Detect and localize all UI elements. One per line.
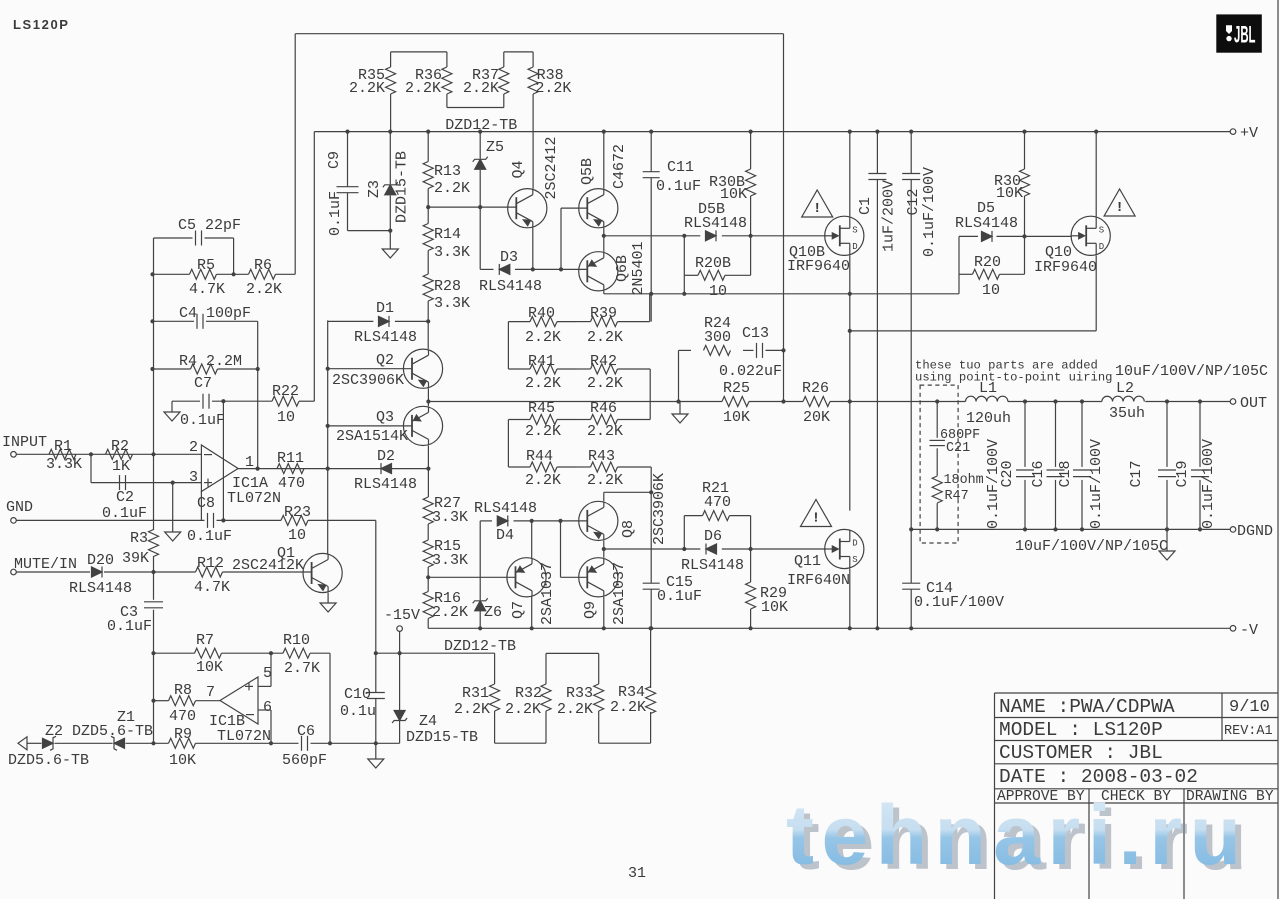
svg-text:R4 2.2M: R4 2.2M: [179, 353, 242, 370]
svg-text:Q4: Q4: [510, 160, 527, 178]
wire Q1 collector from rail: [327, 469, 329, 554]
label 10uF/100V/NP/105C bottom: [1015, 538, 1168, 555]
transistor Q5B: [579, 144, 628, 228]
mosfet Q10B: [787, 216, 864, 275]
svg-text:2SA1037: 2SA1037: [611, 562, 628, 625]
svg-text:3.3K: 3.3K: [432, 509, 468, 526]
junction Q7 base node: [426, 575, 430, 579]
watermark tehnari.ru: [786, 788, 1254, 887]
junction riser at D3 wire: [559, 267, 563, 271]
wire -V rail: [428, 627, 1230, 629]
wire C1 column: [876, 132, 878, 629]
wire R8 from output: [154, 700, 221, 702]
mosfet Q11: [787, 529, 864, 589]
junction feedback at R5 wire: [150, 272, 154, 276]
resistor R3: [122, 530, 159, 568]
junction R7-R10-pin5 node: [269, 651, 273, 655]
svg-text:2.2K: 2.2K: [557, 701, 593, 718]
svg-text:4.7K: 4.7K: [189, 281, 225, 298]
wire C4/R4 down to output: [257, 321, 259, 468]
svg-text:L2: L2: [1116, 380, 1134, 397]
wire IC1A pin4 stub: [200, 492, 202, 521]
transistor Q8: [579, 473, 668, 545]
junction C10 top: [374, 651, 378, 655]
junction R47 at DGND: [935, 527, 939, 531]
svg-text:2.2K: 2.2K: [405, 80, 441, 97]
svg-text:R2: R2: [111, 438, 129, 455]
resistor R8: [169, 682, 197, 725]
wire C7 left stub to ground: [171, 401, 173, 412]
junction pin6 at R9 wire: [269, 741, 273, 745]
svg-text:R10: R10: [283, 632, 310, 649]
junction rail at R9 wire: [151, 741, 155, 745]
node -15V terminal: [384, 607, 420, 631]
wire R15 to R16: [427, 567, 429, 592]
junction feedback at C4 wire: [150, 319, 154, 323]
wire D1 row: [328, 320, 429, 321]
svg-text:R9: R9: [174, 726, 192, 743]
svg-text:2.2K: 2.2K: [349, 80, 385, 97]
wire R24 left bracket: [678, 350, 680, 401]
svg-text:C4 100pF: C4 100pF: [179, 305, 251, 322]
wire R20 right bracket: [1024, 236, 1026, 274]
resistor R22: [272, 383, 299, 426]
svg-text:C5 22pF: C5 22pF: [178, 217, 241, 234]
junction R30B at gate row: [749, 234, 753, 238]
junction R21 left at gate row: [682, 547, 686, 551]
resistor R20B: [684, 255, 750, 300]
title block signature row: [997, 789, 1274, 805]
wire input to op-amp pin2: [16, 453, 201, 455]
svg-text:JBL: JBL: [1234, 22, 1256, 49]
junction D2 wire into Q3 column: [426, 467, 430, 471]
wire R21 right bracket / R29: [750, 516, 752, 582]
capacitor C5: [178, 217, 241, 246]
capacitor C17: [1128, 399, 1176, 531]
wire Q11 source: [849, 568, 851, 628]
svg-text:R42: R42: [590, 353, 617, 370]
capacitor C18: [1057, 399, 1105, 531]
svg-text:R14: R14: [434, 226, 461, 243]
wire R27 to R15: [427, 524, 429, 540]
junction Z5 at bus: [478, 130, 482, 134]
JBL logo: [1216, 14, 1262, 52]
capacitor C8: [187, 495, 232, 545]
resistor R7: [195, 632, 224, 676]
svg-text:MUTE/IN: MUTE/IN: [14, 556, 77, 573]
svg-text:Z2 DZD5.6-TB: Z2 DZD5.6-TB: [45, 723, 153, 740]
resistor R30B: [709, 132, 756, 236]
svg-text:2.2K: 2.2K: [587, 329, 623, 346]
svg-text:DATE : 2008-03-02: DATE : 2008-03-02: [999, 766, 1198, 788]
svg-text:Z4: Z4: [419, 713, 437, 730]
junction C12 at DGND: [909, 527, 913, 531]
wire C14 column: [910, 529, 912, 628]
svg-text:2.2K: 2.2K: [454, 701, 490, 718]
svg-text:C13: C13: [742, 325, 769, 342]
svg-text:NAME :PWA/CDPWA: NAME :PWA/CDPWA: [999, 696, 1175, 718]
svg-text:R45: R45: [528, 400, 555, 417]
wire R20B left bracket: [683, 236, 685, 294]
wire R45-R44 left bracket: [507, 420, 509, 468]
junction feedback at R4 wire: [150, 367, 154, 371]
svg-text:Q7: Q7: [510, 601, 527, 619]
junction R29 top at gate row: [749, 547, 753, 551]
svg-text:10K: 10K: [169, 752, 196, 769]
svg-text:31: 31: [628, 865, 646, 882]
wire C10 column: [375, 653, 377, 743]
svg-text:R47: R47: [945, 489, 969, 504]
wire R36-R37 bottom bracket: [447, 107, 504, 109]
resistor R35: [349, 52, 396, 132]
junction feedback at OUT: [781, 399, 785, 403]
svg-text:C18: C18: [1057, 460, 1074, 487]
diode D20: [69, 552, 132, 597]
svg-text:470: 470: [704, 494, 731, 511]
svg-text:R20: R20: [974, 254, 1001, 271]
junction Z5 at Q4 base wire: [478, 205, 482, 209]
svg-text:560pF: 560pF: [282, 752, 327, 769]
wire Q3 base: [328, 425, 412, 427]
svg-text:2.2K: 2.2K: [525, 472, 561, 489]
svg-text:D: D: [852, 539, 857, 549]
capacitor C6: [282, 723, 327, 769]
svg-text:2.2K: 2.2K: [587, 375, 623, 392]
wire Q5B base riser: [561, 208, 587, 269]
svg-text:2.2K: 2.2K: [525, 375, 561, 392]
wire Q2 emitter to out node: [427, 388, 429, 401]
wire Q7 emitter: [531, 596, 533, 628]
wire R40-R41 left bracket: [507, 322, 509, 369]
junction Q9 base riser at D4 wire: [558, 519, 562, 523]
transistor Q3: [336, 406, 443, 445]
wire Q5B collector: [603, 132, 605, 189]
resistor R4: [179, 353, 242, 374]
resistor R30: [994, 132, 1030, 237]
junction Q8-Q9 node at gate wire: [602, 547, 606, 551]
node OUT terminal: [1230, 395, 1267, 412]
resistor R46: [577, 400, 650, 440]
svg-text:20K: 20K: [803, 409, 830, 426]
wire IC1B pin5: [258, 653, 271, 686]
wire C21 R47 column: [936, 402, 938, 530]
capacitor C19: [1174, 399, 1217, 531]
transistor Q1: [232, 545, 342, 593]
svg-text:Q11: Q11: [794, 553, 821, 570]
resistor R23: [281, 504, 311, 544]
junction R13 at bus: [426, 130, 430, 134]
wire base rail x327: [327, 321, 329, 468]
svg-text:0.022uF: 0.022uF: [719, 363, 782, 380]
svg-text:R11: R11: [277, 450, 304, 467]
op-amp IC1B: [206, 665, 272, 745]
svg-text:2SA1037: 2SA1037: [539, 562, 556, 625]
svg-text:C19: C19: [1174, 460, 1191, 487]
svg-text:10K: 10K: [196, 659, 223, 676]
svg-text:0.1uF: 0.1uF: [187, 528, 232, 545]
svg-text:C6: C6: [297, 723, 315, 740]
wire C7 R22: [172, 400, 314, 402]
resistor R43: [577, 448, 651, 489]
svg-text:RLS4148: RLS4148: [354, 476, 417, 493]
wire IC1A output: [238, 468, 428, 470]
capacitor C10: [340, 686, 385, 720]
junction Z6 at -V: [478, 626, 482, 630]
wire Q5B emitter / Q6B collector: [603, 228, 605, 252]
junction Q9 emitter at -V: [602, 626, 606, 630]
zener Z5: [473, 139, 504, 169]
wire R38 down to Q4 collector: [532, 94, 534, 189]
svg-text:0.1uF: 0.1uF: [180, 412, 225, 429]
junction pin3 ground node: [171, 481, 175, 485]
transistor Q6B: [579, 241, 647, 295]
resistor R36: [405, 52, 452, 108]
title block NAME row: [999, 696, 1270, 718]
resistor R14: [423, 207, 470, 274]
svg-text:R25: R25: [723, 380, 750, 397]
junction output feedback: [256, 467, 260, 471]
svg-text:10uF/100V/NP/105C: 10uF/100V/NP/105C: [1015, 538, 1168, 555]
svg-text:S: S: [852, 555, 857, 565]
resistor R21: [684, 480, 750, 521]
resistor R44: [508, 448, 577, 489]
junction gate-drive node: [602, 234, 606, 238]
wire Q10B source: [849, 132, 851, 217]
resistor R42: [577, 353, 650, 392]
wire Q7 base row: [428, 576, 515, 578]
junction C14 at -V: [909, 626, 913, 630]
wire gate drive row upper: [604, 235, 826, 237]
wire DGND rail: [911, 528, 1230, 530]
zener Z6: [473, 521, 502, 628]
junction Z3 bottom: [388, 229, 392, 233]
svg-text:D2: D2: [377, 448, 395, 465]
wire Z5 column: [479, 132, 481, 270]
svg-text:IRF9640: IRF9640: [1034, 259, 1097, 276]
wire Q4 base: [428, 206, 516, 208]
svg-text:Q8: Q8: [620, 520, 637, 538]
resistor R37: [463, 52, 509, 108]
svg-text:C11: C11: [667, 159, 694, 176]
svg-text:3.3K: 3.3K: [434, 295, 470, 312]
svg-text:18ohm: 18ohm: [944, 473, 984, 488]
svg-text:INPUT: INPUT: [2, 434, 47, 451]
svg-text:2.2K: 2.2K: [434, 180, 470, 197]
resistor R13: [423, 132, 470, 208]
resistor R29: [746, 582, 788, 628]
svg-text:0.1uF: 0.1uF: [102, 505, 147, 522]
svg-text:7: 7: [206, 684, 215, 701]
resistor R24: [704, 315, 732, 355]
zener Z3: [366, 151, 411, 223]
svg-text:10: 10: [982, 282, 1000, 299]
svg-text:0.1uF: 0.1uF: [327, 191, 344, 236]
svg-text:R12: R12: [197, 555, 224, 572]
svg-text:Q5B: Q5B: [579, 158, 596, 185]
svg-text:3.3K: 3.3K: [434, 244, 470, 261]
svg-text:2.2K: 2.2K: [535, 80, 571, 97]
svg-text:C17: C17: [1128, 460, 1145, 487]
svg-text:Q6B: Q6B: [614, 255, 631, 282]
capacitor C16: [1030, 399, 1065, 531]
junction C1 at -V: [875, 626, 879, 630]
wire Q9 base riser: [561, 521, 588, 577]
svg-text:2.2K: 2.2K: [505, 701, 541, 718]
svg-text:C8: C8: [197, 495, 215, 512]
svg-text:tehnari.ru: tehnari.ru: [786, 788, 1248, 882]
wire Z3 ground stub: [389, 231, 391, 249]
junction mute at rail: [151, 570, 155, 574]
svg-text:C4672: C4672: [611, 144, 628, 189]
svg-text:!: !: [1115, 200, 1123, 216]
diode D2: [354, 448, 417, 493]
wire -15V row: [376, 652, 495, 654]
svg-text:OUT: OUT: [1240, 395, 1267, 412]
wire R21 left bracket: [683, 516, 685, 549]
resistor R9: [169, 726, 197, 769]
wire gate return row: [604, 236, 1072, 293]
resistor R28: [423, 274, 470, 321]
svg-text:Z6: Z6: [484, 604, 502, 621]
wire R23 to -15V node: [375, 520, 377, 653]
wire Q9 emitter: [603, 597, 605, 628]
svg-text:10: 10: [709, 283, 727, 300]
capacitor C14: [902, 580, 1004, 611]
svg-text:C12: C12: [905, 188, 922, 215]
junction Q10B source at bus: [848, 130, 852, 134]
diode D5: [955, 200, 1018, 242]
wire R22 up to +V bus: [313, 132, 315, 402]
svg-text:R46: R46: [590, 400, 617, 417]
note point-to-point: [915, 359, 1112, 385]
wire R32-R33 top bracket: [546, 652, 599, 654]
svg-text:REV:A1: REV:A1: [1224, 724, 1273, 739]
svg-text:2.7K: 2.7K: [284, 660, 320, 677]
resistor R40: [508, 305, 577, 346]
resistor R27: [423, 495, 468, 526]
node GND terminal: [6, 499, 33, 523]
wire Q8 emitter / Q9 collector: [603, 541, 605, 558]
svg-text:R22: R22: [272, 383, 299, 400]
zener Z1: [111, 709, 135, 750]
svg-text:!: !: [813, 201, 821, 217]
wire R5 R6: [153, 273, 296, 275]
ground at Q1: [320, 603, 336, 612]
svg-text:RLS4148: RLS4148: [354, 329, 417, 346]
svg-text:Q3: Q3: [376, 409, 394, 426]
wire IC1B pin6: [258, 710, 271, 743]
svg-text:DZD5.6-TB: DZD5.6-TB: [8, 752, 89, 769]
capacitor C7: [180, 375, 225, 429]
node MUTE/IN terminal: [11, 556, 77, 575]
node DGND terminal: [1230, 523, 1273, 540]
diode D3: [479, 249, 542, 295]
svg-text:2.2K: 2.2K: [587, 423, 623, 440]
svg-text:C9: C9: [326, 151, 343, 169]
transistor Q2: [332, 349, 443, 389]
resistor R15: [423, 538, 468, 569]
ground at op-amp pin3: [165, 532, 181, 541]
svg-text:D1: D1: [376, 300, 394, 317]
svg-text:TL072N: TL072N: [227, 490, 281, 507]
junction C7-R22 node drop: [221, 399, 225, 403]
svg-text:R7: R7: [196, 632, 214, 649]
svg-text:3.3K: 3.3K: [46, 456, 82, 473]
inductor L1: [966, 380, 1012, 427]
node INPUT terminal: [2, 434, 47, 457]
svg-text:2SA1514K: 2SA1514K: [336, 428, 408, 445]
resistor R5: [189, 257, 225, 298]
svg-text:DZD15-TB: DZD15-TB: [394, 151, 411, 223]
capacitor C4: [179, 305, 251, 329]
ground at OUT divider: [672, 414, 688, 423]
wire C12 column: [910, 132, 912, 530]
svg-text:D20: D20: [87, 552, 114, 569]
svg-text:D6: D6: [704, 528, 722, 545]
svg-text:2SC3906K: 2SC3906K: [651, 473, 668, 545]
svg-text:470: 470: [169, 708, 196, 725]
svg-text:0.1uF/100V: 0.1uF/100V: [1200, 439, 1217, 529]
wire Q10B drain column: [849, 255, 851, 510]
wire C9 to Z3 bottom: [348, 230, 391, 232]
svg-text:R31: R31: [462, 685, 489, 702]
wire C4: [153, 320, 258, 322]
wire R1 node down to C2: [90, 454, 92, 482]
page number 31: [628, 865, 646, 882]
wire gate drive row lower: [604, 548, 826, 550]
capacitor C13: [719, 325, 782, 380]
capacitor C9: [326, 151, 359, 236]
title text LS120P: [13, 17, 70, 32]
svg-text:0.1uF: 0.1uF: [107, 618, 152, 635]
junction R29 at -V: [749, 626, 753, 630]
capacitor C3: [107, 602, 163, 635]
svg-text:RLS4148: RLS4148: [69, 580, 132, 597]
junction Q4 emitter at D3 wire: [531, 267, 535, 271]
resistor R20: [959, 254, 1025, 299]
wire R42 down to R46: [649, 369, 651, 420]
svg-text:Z5: Z5: [486, 139, 504, 156]
svg-text:2SC3906K: 2SC3906K: [332, 372, 404, 389]
resistor R47: [932, 473, 983, 504]
svg-text:R26: R26: [802, 380, 829, 397]
wire x651 column lower: [650, 467, 652, 628]
svg-text:35uh: 35uh: [1109, 405, 1145, 422]
wire C10 ground stub: [375, 743, 377, 759]
junction C9 at bus: [345, 130, 349, 134]
svg-text:S: S: [1099, 225, 1104, 235]
title block CUSTOMER row: [999, 742, 1163, 764]
svg-text:RLS4148: RLS4148: [684, 215, 747, 232]
svg-text:R5: R5: [197, 257, 215, 274]
junction R20B left top: [682, 234, 686, 238]
wire Q7 collector: [531, 521, 533, 558]
svg-text:-V: -V: [1240, 622, 1258, 639]
wire R39 up to x651 node: [649, 294, 651, 322]
diode D5B: [684, 201, 747, 241]
wire C5 top: [154, 238, 234, 274]
transistor Q9: [579, 558, 628, 625]
svg-text:10K: 10K: [761, 599, 788, 616]
wire Q10 drain link: [850, 255, 1096, 331]
wire R9 C6 row: [27, 742, 400, 744]
resistor R2: [106, 438, 133, 475]
junction C12 at bus: [909, 130, 913, 134]
title block DATE row: [999, 766, 1198, 788]
svg-text:2.2K: 2.2K: [463, 80, 499, 97]
junction Q5B collector at bus: [602, 130, 606, 134]
wire +V bus: [314, 131, 1230, 133]
